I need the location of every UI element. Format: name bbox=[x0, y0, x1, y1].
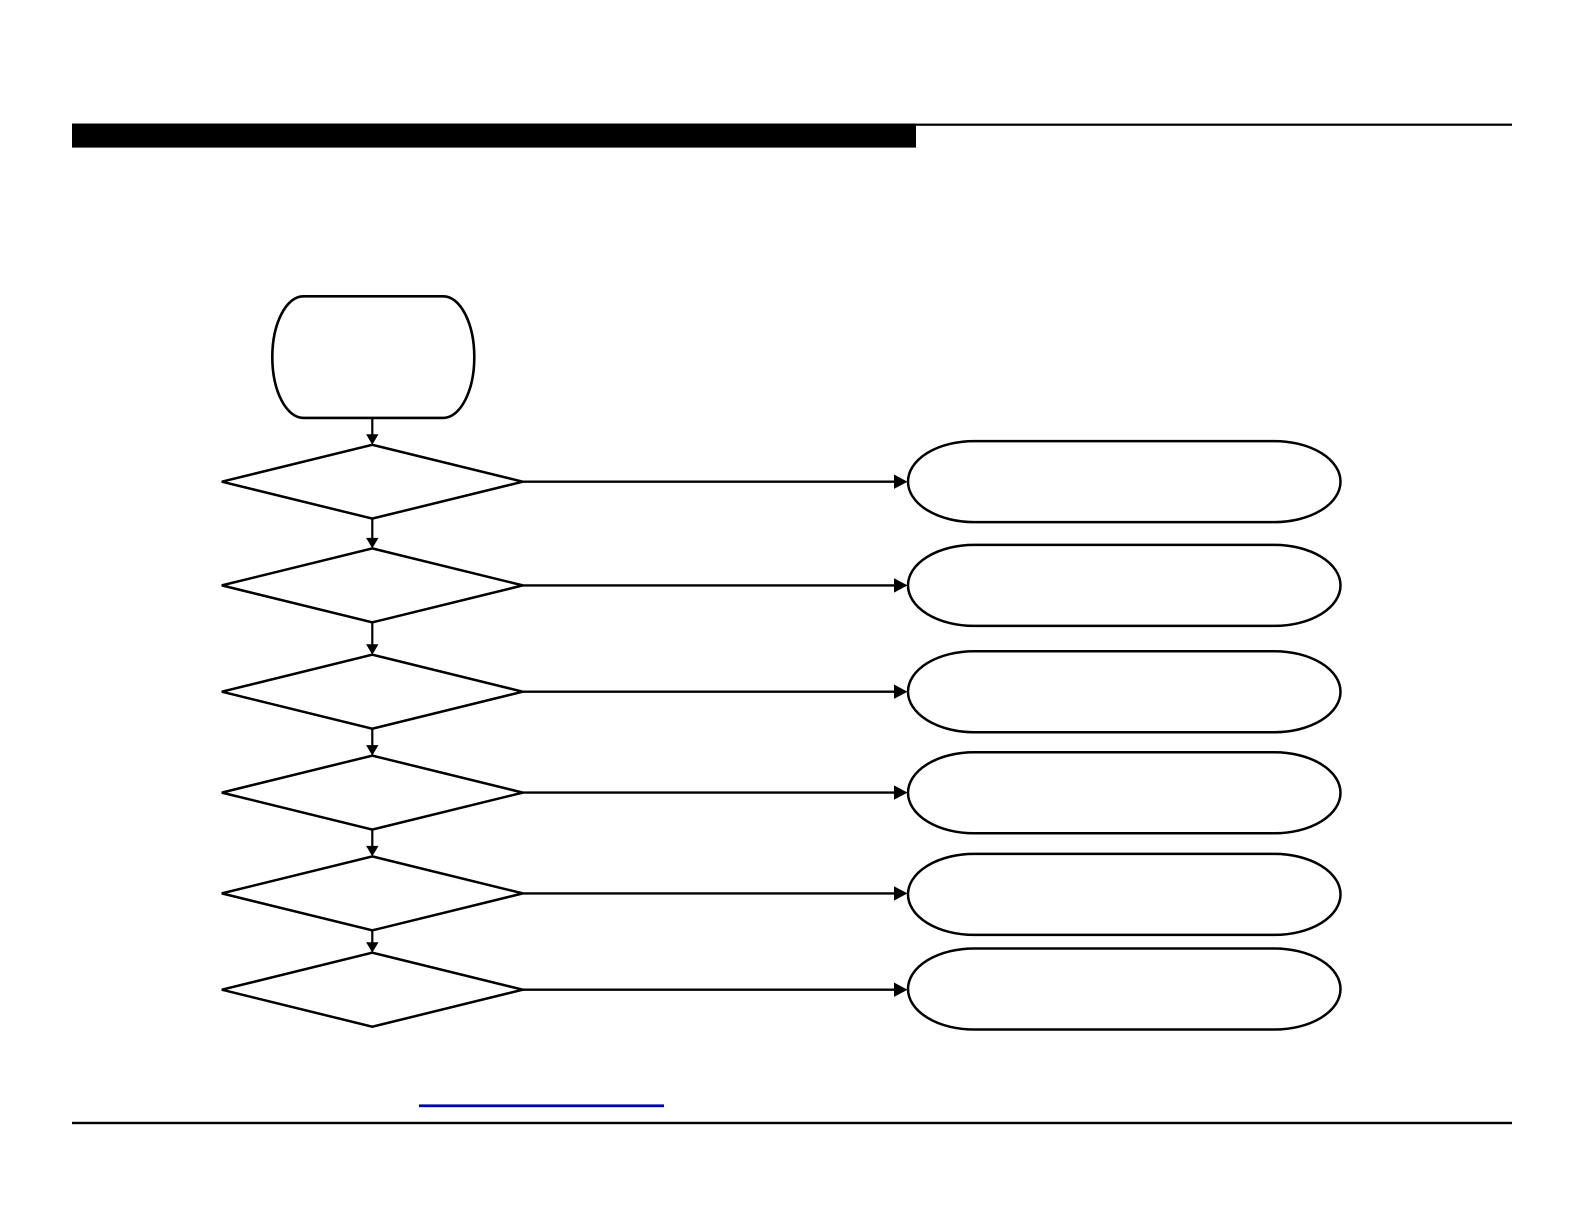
wire D6 to T6 bbox=[523, 989, 900, 991]
wire D3 to D4 bbox=[371, 729, 373, 748]
wire D5 to T5 bbox=[523, 892, 900, 894]
start terminator bbox=[272, 296, 474, 418]
arrowhead into D2 bbox=[366, 538, 378, 549]
wire D2 to T2 bbox=[523, 584, 900, 586]
decision diamond D2 bbox=[222, 548, 523, 622]
arrowhead into D6 bbox=[366, 942, 378, 953]
arrowhead into T2 bbox=[894, 578, 908, 592]
arrowhead into T4 bbox=[894, 785, 908, 799]
decision diamond D1 bbox=[222, 445, 523, 519]
arrowhead into D3 bbox=[366, 644, 378, 655]
wire D5 to D6 bbox=[371, 930, 373, 944]
wire D3 to T3 bbox=[523, 691, 900, 693]
arrowhead into D5 bbox=[366, 846, 378, 857]
decision diamond D5 bbox=[222, 856, 523, 930]
wire D4 to T4 bbox=[523, 791, 900, 793]
terminator T4 bbox=[908, 752, 1341, 833]
arrowhead into D4 bbox=[366, 745, 378, 756]
header black bar bbox=[72, 124, 916, 148]
terminator T2 bbox=[908, 545, 1341, 626]
terminator T5 bbox=[908, 854, 1341, 935]
arrowhead into T6 bbox=[894, 983, 908, 997]
decision diamond D6 bbox=[222, 953, 523, 1027]
wire D1 to D2 bbox=[371, 519, 373, 541]
wire D4 to D5 bbox=[371, 830, 373, 849]
header rule bbox=[72, 124, 1512, 126]
wire D1 to T1 bbox=[523, 481, 900, 483]
arrowhead into T5 bbox=[894, 886, 908, 900]
terminator T1 bbox=[908, 441, 1341, 522]
wire D2 to D3 bbox=[371, 622, 373, 646]
arrowhead into T1 bbox=[894, 475, 908, 489]
decision diamond D4 bbox=[222, 756, 523, 830]
footer rule bbox=[72, 1122, 1512, 1124]
arrowhead into T3 bbox=[894, 685, 908, 699]
terminator T6 bbox=[908, 949, 1341, 1030]
hyperlink underline bbox=[419, 1104, 664, 1107]
decision diamond D3 bbox=[222, 655, 523, 729]
arrowhead into D1 bbox=[366, 434, 378, 445]
wire start to D1 bbox=[371, 418, 373, 437]
terminator T3 bbox=[908, 651, 1341, 732]
